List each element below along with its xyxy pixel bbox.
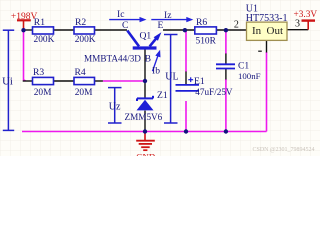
svg-text:Z1: Z1 (157, 90, 168, 101)
svg-text:CSDN @2301_79894524: CSDN @2301_79894524 (253, 147, 315, 153)
svg-text:GND: GND (136, 151, 155, 156)
svg-text:200K: 200K (34, 35, 55, 45)
svg-text:20M: 20M (75, 88, 93, 98)
svg-text:+3.3V: +3.3V (294, 10, 318, 20)
svg-text:Iz: Iz (164, 10, 171, 21)
svg-text:20M: 20M (34, 88, 52, 98)
svg-text:Uz: Uz (109, 102, 121, 113)
svg-text:B: B (145, 53, 151, 64)
svg-text:Ic: Ic (117, 9, 124, 20)
svg-text:UL: UL (165, 71, 178, 82)
svg-text:ZMM5V6: ZMM5V6 (125, 112, 163, 122)
svg-text:E: E (158, 20, 164, 31)
svg-text:C1: C1 (238, 61, 249, 72)
svg-text:510R: 510R (196, 37, 217, 47)
svg-text:200K: 200K (75, 35, 96, 45)
svg-text:HT7533-1: HT7533-1 (246, 13, 288, 24)
svg-text:100nF: 100nF (238, 71, 261, 81)
svg-text:R3: R3 (33, 67, 44, 78)
svg-text:3: 3 (295, 19, 300, 30)
svg-text:2: 2 (234, 20, 239, 31)
svg-text:Out: Out (267, 25, 284, 37)
svg-text:+198V: +198V (11, 12, 38, 22)
svg-text:In: In (252, 25, 262, 37)
svg-text:E1: E1 (194, 76, 205, 87)
svg-text:Q1: Q1 (140, 30, 152, 41)
svg-text:R4: R4 (75, 67, 86, 78)
svg-text:C: C (122, 20, 128, 31)
svg-text:R2: R2 (75, 17, 86, 28)
svg-text:Ui: Ui (2, 75, 13, 87)
svg-text:Ib: Ib (152, 66, 160, 77)
svg-text:MMBTA44/3D: MMBTA44/3D (84, 53, 141, 63)
svg-text:47uF/25V: 47uF/25V (195, 87, 233, 97)
svg-text:R6: R6 (196, 17, 207, 28)
